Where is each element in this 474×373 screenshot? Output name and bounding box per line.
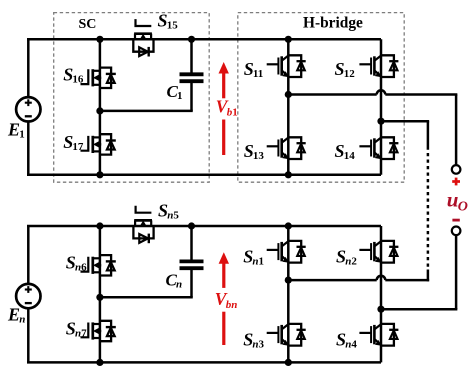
IGBT S11 [267,55,306,77]
node capacitor top junction module n [188,222,195,229]
terminal minus output [452,227,461,236]
MOSFET Sn5 [133,206,153,243]
node H-bridge right mid junction module 1 [377,118,384,125]
wire SC switch leg module 1 [99,39,102,175]
wire module 1 AC output b to cascade link [381,120,429,123]
node H-bridge top junction module n [285,222,292,229]
node SC bottom junction module 1 [96,171,103,178]
capacitor Cn [190,226,193,261]
wire top rail module 1 [27,38,381,41]
IGBT S13 [267,137,306,159]
IGBT S12 [359,55,398,77]
MOSFET S17 [81,134,116,154]
node H-bridge bottom junction module n [285,359,292,366]
wire H-bridge right leg module 1 [380,39,383,175]
dashed cascade link between modules [427,147,430,270]
node H-bridge left mid junction module 1 [285,91,292,98]
wire top rail module n [27,225,381,228]
wire capacitor Cn bottom to SC mid node [100,296,193,299]
wire module 1 AC output a (left mid to + terminal) [288,93,376,96]
terminal + output [452,165,461,174]
node H-bridge bottom junction module 1 [285,171,292,178]
IGBT Sn4 [359,324,398,346]
MOSFET S15 [133,19,153,56]
node SC mid junction module 1 [96,107,103,114]
svg-text:SC: SC [79,17,97,32]
svg-text:H-bridge: H-bridge [303,15,363,32]
node SC bottom junction module n [96,359,103,366]
wire capacitor C1 bottom to SC mid node [100,110,193,113]
arrow Vbn [219,252,229,345]
node capacitor top junction module 1 [188,36,195,43]
MOSFET Sn7 [81,321,116,341]
wire module n AC output b (right mid to - terminal) [381,308,457,311]
MOSFET S16 [81,68,116,88]
label + output [452,178,460,186]
node SC top junction module 1 [96,36,103,43]
capacitor C1 [190,39,193,74]
IGBT Sn2 [359,241,398,263]
wire bottom rail module 1 [27,174,381,177]
node SC mid junction module n [96,294,103,301]
voltage source En [16,284,40,308]
label minus output [452,219,459,222]
arrow Vb1 [219,62,229,155]
MOSFET Sn6 [81,255,116,275]
node H-bridge top junction module 1 [285,36,292,43]
wire H-bridge left leg module 1 [287,39,290,175]
IGBT Sn1 [267,241,306,263]
voltage source E1 [16,97,40,121]
wire H-bridge right leg module n [380,226,383,362]
node SC top junction module n [96,222,103,229]
dashed box H-bridge (module 1) [238,13,404,183]
wire bottom rail module n [27,361,381,364]
IGBT Sn3 [267,324,306,346]
wire H-bridge left leg module n [287,226,290,362]
wire left branch module n [27,226,30,362]
dashed box SC cell (module 1) [54,13,210,183]
node H-bridge right mid junction module n [377,306,384,313]
wire left branch module 1 [27,39,30,175]
wire SC switch leg module n [99,226,102,362]
wire module n AC output a to cascade link [288,279,376,282]
node H-bridge left mid junction module n [285,277,292,284]
IGBT S14 [359,137,398,159]
